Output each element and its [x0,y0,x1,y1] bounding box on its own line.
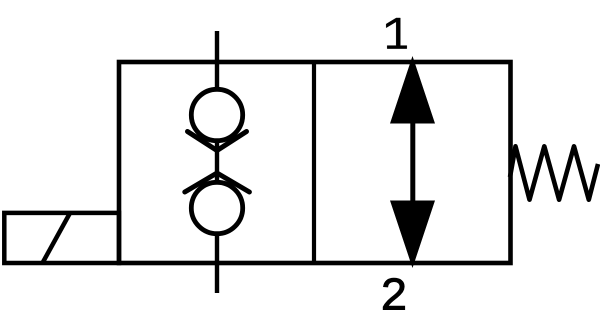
check valve CV1 ball [191,89,242,140]
port label 1 [386,18,407,49]
port 2 arrow head (down) [390,201,435,269]
solenoid diagonal stroke [43,213,70,262]
arrow shaft [410,121,415,203]
solenoid actuator box [4,213,119,263]
check valve CV2 ball [191,182,242,233]
port 1 arrow head (up) [390,56,435,124]
valve body outer box [119,62,511,263]
spring (return spring) [510,146,598,199]
valve position divider [312,62,316,263]
port label 2 [383,278,405,309]
check valve CV2 seat [185,173,250,192]
wire: vertical flow line through check valves [215,31,219,293]
check valve CV1 seat [188,132,247,151]
